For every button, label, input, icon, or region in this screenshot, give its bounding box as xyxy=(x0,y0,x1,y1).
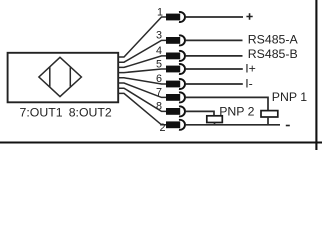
wire load PNP 1 to minus rail xyxy=(267,117,269,125)
wire pin 4 to RS485-B xyxy=(186,55,243,57)
svg-text:RS485-A: RS485-A xyxy=(248,33,299,47)
wire pin 2 minus rail xyxy=(186,124,280,126)
svg-text:3: 3 xyxy=(156,30,162,42)
svg-text:7: 7 xyxy=(156,87,162,99)
svg-text:I+: I+ xyxy=(245,62,256,76)
sensor box xyxy=(8,53,119,103)
svg-text:7:OUT1: 7:OUT1 xyxy=(20,105,63,119)
wire load PNP 2 to minus rail xyxy=(214,123,216,125)
load PNP 2 xyxy=(207,116,223,123)
pin 5 contact xyxy=(166,64,185,74)
pin 6 contact xyxy=(166,79,185,89)
wire fan box to pin 8 xyxy=(118,88,166,111)
wire fan box to pin 6 xyxy=(118,78,166,84)
svg-text:5: 5 xyxy=(156,58,162,70)
wire pin 6 to I- xyxy=(186,83,243,85)
wire pin 7 to load PNP 1 xyxy=(186,97,268,110)
pin 7 contact xyxy=(166,92,185,102)
frame bottom xyxy=(0,141,322,143)
wire fan box to pin 3 xyxy=(118,40,166,62)
wire fan box to pin 4 xyxy=(118,56,166,68)
frame right xyxy=(315,0,317,150)
svg-text:8:OUT2: 8:OUT2 xyxy=(69,105,112,119)
svg-text:2: 2 xyxy=(160,122,166,134)
wire fan box to pin 7 xyxy=(118,83,166,97)
svg-text:6: 6 xyxy=(156,73,162,85)
wire pin 5 to I+ xyxy=(186,68,243,70)
load PNP 1 xyxy=(261,111,278,117)
wire fan box to pin 1 xyxy=(118,17,166,57)
wire fan box to pin 2 xyxy=(118,93,166,124)
svg-text:8: 8 xyxy=(156,101,162,113)
pin 4 contact xyxy=(166,51,185,61)
svg-text:1: 1 xyxy=(157,6,163,18)
svg-text:RS485-B: RS485-B xyxy=(248,47,298,61)
pin 1 contact xyxy=(166,12,185,22)
label + xyxy=(246,13,252,19)
wire pin 8 to load PNP 2 xyxy=(186,111,214,115)
svg-text:I-: I- xyxy=(245,77,253,91)
svg-text:PNP 1: PNP 1 xyxy=(272,90,307,104)
svg-text:PNP 2: PNP 2 xyxy=(219,105,254,119)
wire pin 3 to RS485-A xyxy=(186,39,243,41)
wire pin 1 to + xyxy=(186,16,243,18)
svg-text:4: 4 xyxy=(156,45,162,57)
sensor symbol xyxy=(39,57,82,96)
pin 3 contact xyxy=(166,35,185,45)
pin 2 contact xyxy=(166,120,185,130)
wire fan box to pin 5 xyxy=(118,69,166,73)
pin 8 contact xyxy=(166,106,185,116)
label - xyxy=(286,125,290,127)
